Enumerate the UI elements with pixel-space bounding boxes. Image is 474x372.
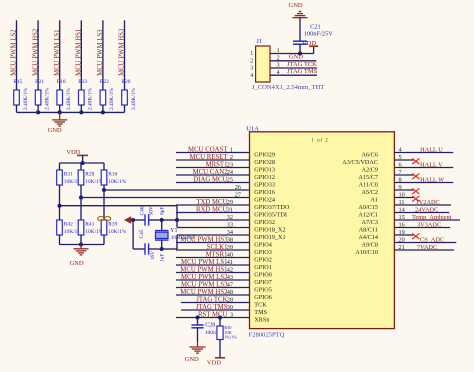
footprint J_CON4X1_2.54mm_THT — [252, 84, 324, 91]
pin 7 A15/C7 — [358, 169, 401, 181]
svg-text:A0/C15: A0/C15 — [358, 204, 378, 211]
net label MCU_PWM_LS2 — [11, 29, 18, 76]
svg-text:41: 41 — [227, 259, 233, 266]
svg-text:J1: J1 — [256, 38, 262, 45]
pin 9 A5/C2 — [361, 184, 401, 196]
pin 20 A9/C8 — [361, 237, 404, 249]
svg-text:16: 16 — [399, 222, 405, 229]
svg-text:TCK: TCK — [254, 302, 267, 309]
wire U1A pin 34 — [177, 234, 250, 236]
svg-text:11: 11 — [399, 199, 405, 206]
wire R31 rail to GPIO18_X2 — [60, 206, 178, 228]
wire U1A pin 29 — [176, 204, 250, 206]
wire U1A pin 26 — [104, 189, 250, 191]
resistor R16 10K/1% — [101, 163, 127, 185]
svg-text:3: 3 — [230, 312, 233, 319]
svg-text:GPIO24: GPIO24 — [254, 197, 275, 204]
svg-text:MCU PWM HS2: MCU PWM HS2 — [180, 289, 228, 296]
svg-text:A4/C14: A4/C14 — [358, 234, 378, 241]
svg-text:28: 28 — [227, 297, 233, 304]
svg-text:A15/C7: A15/C7 — [358, 174, 378, 181]
svg-text:MCU PWM HS1: MCU PWM HS1 — [180, 267, 227, 274]
junction — [102, 188, 106, 192]
svg-text:24VADC: 24VADC — [415, 207, 438, 214]
net label Temp_Ambient — [412, 214, 452, 221]
wire U1A pin 38 — [176, 242, 250, 244]
svg-text:GND: GND — [185, 356, 199, 363]
wire R28 column — [80, 185, 82, 220]
wire U1A pin 14 24VADC — [394, 212, 449, 214]
svg-text:MTSR1: MTSR1 — [206, 252, 228, 259]
pin 24 GPIO12 — [227, 169, 275, 181]
pin 30 TMS — [227, 304, 268, 316]
svg-text:J_CON4X1_2.54mm_THT: J_CON4X1_2.54mm_THT — [252, 84, 324, 91]
svg-text:38: 38 — [227, 237, 233, 244]
net label MCU_PWM_HS3 — [180, 237, 228, 244]
no-ERC cross — [412, 158, 419, 164]
svg-text:GPIO37/TDO: GPIO37/TDO — [254, 204, 290, 211]
pin 23 GPIO13 — [227, 162, 275, 174]
svg-text:24: 24 — [227, 169, 234, 176]
net label CS_ADC — [420, 237, 444, 244]
svg-text:XRSn: XRSn — [254, 317, 269, 324]
svg-text:JTAG TMS: JTAG TMS — [287, 68, 318, 75]
svg-text:HALL U: HALL U — [420, 147, 443, 154]
net label MCU_PWM_HS2 — [32, 28, 39, 76]
net label MTSR1 — [206, 252, 228, 259]
svg-text:5: 5 — [399, 154, 402, 161]
junction — [79, 196, 83, 200]
svg-text:10: 10 — [399, 192, 405, 199]
junction — [79, 243, 83, 247]
no-ERC cross — [412, 233, 419, 239]
svg-text:16V: 16V — [150, 251, 156, 260]
wire U1A pin 8 HALL_W — [394, 182, 453, 184]
svg-text:42: 42 — [227, 267, 233, 274]
svg-text:23: 23 — [227, 162, 233, 169]
wire U1A pin 20 CS_ADC — [394, 242, 456, 244]
pin 6 A2/C9 — [361, 162, 401, 174]
net label MCU_COAST — [188, 147, 228, 154]
pin 31 GPIO35/TDI — [227, 207, 287, 219]
capacitor C46 — [133, 206, 165, 226]
net label MCU_PWM_HS3 — [119, 28, 126, 76]
pin 14 A12/C1 — [358, 207, 405, 219]
svg-text:7VADC: 7VADC — [417, 244, 437, 251]
pin 1 number — [250, 48, 279, 57]
svg-text:GPIO1: GPIO1 — [254, 264, 272, 271]
pin 5 A3/C5/VDAC — [342, 154, 401, 166]
svg-text:A1: A1 — [370, 197, 378, 204]
wire J1 pin4 JTAG_TMS — [270, 74, 317, 76]
svg-text:4: 4 — [250, 73, 253, 79]
pin 2 number — [250, 56, 279, 65]
svg-text:MCU PWM LS2: MCU PWM LS2 — [181, 274, 228, 281]
wire U1A pin 11 1V2ADC — [394, 204, 451, 206]
svg-text:MCU PWM LS1: MCU PWM LS1 — [181, 259, 227, 266]
junction — [101, 110, 105, 114]
net label JTAG_TMS — [196, 304, 228, 311]
wire J1 pin3 JTAG_TCK — [270, 67, 317, 69]
wire gnd rail — [60, 244, 105, 246]
svg-text:GPIO4: GPIO4 — [254, 242, 272, 249]
wire R22 to bus — [102, 105, 104, 112]
wire U1A pin 6 HALL_V — [394, 167, 453, 169]
svg-text:GPIO16: GPIO16 — [254, 189, 275, 196]
svg-text:R39: R39 — [108, 222, 117, 228]
svg-text:2: 2 — [230, 154, 233, 161]
svg-text:GPIO6: GPIO6 — [254, 294, 272, 301]
svg-text:DIAG MCU: DIAG MCU — [193, 177, 227, 184]
svg-text:JTAG TCK: JTAG TCK — [196, 297, 227, 304]
resistor R22 2.49K/1% — [100, 79, 115, 110]
svg-text:HALL W: HALL W — [420, 177, 444, 184]
svg-text:GPIO0: GPIO0 — [254, 272, 272, 279]
svg-text:2.49K/1%: 2.49K/1% — [66, 87, 72, 110]
net label RST_MCU — [198, 312, 228, 319]
wire U1A pin 4 HALL_U — [394, 152, 453, 154]
junction — [58, 204, 62, 208]
wire U1A pin 42 — [176, 272, 250, 274]
wire U1A pin 1 — [176, 152, 250, 154]
ground GND reset — [185, 347, 206, 363]
svg-text:TXD MCU: TXD MCU — [196, 199, 227, 206]
net label JTAG_TCK — [196, 297, 227, 304]
no-ERC cross — [412, 188, 419, 194]
svg-text:2.49K/1%: 2.49K/1% — [88, 87, 94, 110]
svg-text:34: 34 — [227, 229, 234, 236]
net label JTAG_TMS — [287, 68, 318, 75]
wire U1A pin 3 — [176, 317, 250, 319]
wire R42 to gnd rail — [59, 235, 61, 245]
wire MCU_PWM_LS3 vertical — [102, 20, 104, 90]
svg-text:A10/C10: A10/C10 — [355, 249, 378, 256]
net label MCU_PWM_LS1 — [181, 259, 227, 266]
pin 38 GPIO4 — [227, 237, 272, 249]
wire U1A pin 15 Temp_Ambient — [394, 219, 460, 221]
svg-text:R20: R20 — [122, 79, 131, 85]
svg-text:7: 7 — [399, 169, 402, 176]
svg-text:GND: GND — [69, 260, 83, 267]
svg-text:8: 8 — [399, 177, 402, 184]
wire U1A pin 41 — [176, 264, 250, 266]
svg-text:10K/1%: 10K/1% — [108, 179, 126, 185]
svg-text:1: 1 — [230, 147, 233, 154]
op-amp U1A body — [246, 125, 394, 328]
junction — [81, 161, 85, 165]
wire ground bus — [17, 111, 125, 113]
svg-text:F280025PTQ: F280025PTQ — [249, 332, 285, 339]
pin 47 GPIO5 — [227, 282, 272, 294]
svg-text:RST MCU: RST MCU — [198, 312, 228, 319]
svg-text:GND: GND — [289, 54, 303, 61]
svg-text:GPIO3: GPIO3 — [254, 249, 272, 256]
svg-text:HALL V: HALL V — [420, 162, 443, 169]
svg-text:CS_ADC: CS_ADC — [420, 237, 444, 244]
svg-text:A12/C1: A12/C1 — [358, 212, 378, 219]
svg-text:R18: R18 — [57, 79, 66, 85]
junction — [36, 110, 40, 114]
pin 1 GPIO29 — [230, 147, 275, 159]
net label 24VADC — [415, 207, 438, 214]
marker blobs — [98, 217, 111, 221]
capacitor C45 — [133, 229, 165, 262]
net label MRST1 — [206, 162, 228, 169]
wire U1A pin 24 — [176, 174, 250, 176]
pin 11 A0/C15 — [358, 199, 404, 211]
wire C28 to ground — [197, 328, 199, 347]
svg-text:GND: GND — [289, 2, 303, 9]
wire U1A pin 43 — [176, 279, 250, 281]
junction — [175, 218, 179, 222]
svg-text:A6/C6: A6/C6 — [361, 152, 378, 159]
svg-text:R23: R23 — [78, 79, 87, 85]
resistor R42 10K/1% — [57, 220, 83, 235]
svg-text:1: 1 — [250, 51, 253, 57]
resistor R21 2.49K/1% — [35, 79, 50, 110]
pin 16 A8/C11 — [359, 222, 405, 234]
svg-text:14: 14 — [399, 207, 406, 214]
footprint F280025PTQ — [249, 332, 285, 339]
junction — [218, 316, 222, 320]
net label HALL_V — [420, 162, 443, 169]
pin 33 GPIO18_X2 — [227, 222, 286, 234]
svg-text:25: 25 — [227, 177, 233, 184]
junction — [79, 110, 83, 114]
svg-text:RXD MCU: RXD MCU — [196, 207, 228, 214]
svg-text:A3/C5/VDAC: A3/C5/VDAC — [342, 159, 378, 166]
wire U1A pin 7 stub — [394, 174, 413, 176]
svg-text:C21: C21 — [310, 24, 321, 31]
pin 28 TCK — [227, 297, 268, 309]
capacitor C21 100nF/25V — [293, 24, 333, 45]
wire U1A pin 48 — [176, 294, 250, 296]
wire R15 to bus — [16, 105, 18, 112]
svg-text:2.49K/1%: 2.49K/1% — [131, 87, 137, 110]
pin 25 GPIO33 — [227, 177, 275, 189]
svg-text:2.49K/1%: 2.49K/1% — [23, 87, 29, 110]
svg-text:A11/C0: A11/C0 — [359, 182, 378, 189]
resistor R23 2.49K/1% — [78, 79, 93, 110]
svg-text:R16: R16 — [108, 172, 117, 178]
net label SCLK1 — [207, 244, 228, 251]
svg-text:2: 2 — [250, 58, 253, 64]
svg-text:GPIO19_X1: GPIO19_X1 — [254, 234, 285, 241]
svg-text:9: 9 — [399, 184, 402, 191]
svg-text:1%/1%: 1%/1% — [224, 334, 237, 339]
wire R41 to gnd rail — [80, 235, 82, 245]
net label RXD_MCU — [196, 207, 228, 214]
pin 41 GPIO1 — [227, 259, 272, 271]
svg-text:C28: C28 — [205, 323, 215, 329]
svg-text:R21: R21 — [35, 79, 44, 85]
pin 32 GPIO32 — [227, 214, 275, 226]
pin 4 A6/C6 — [361, 147, 402, 159]
svg-text:21: 21 — [399, 244, 405, 251]
wire U1A pin 9 stub — [394, 189, 413, 191]
resistor R15 2.49K/1% — [14, 79, 29, 110]
net label HALL_W — [420, 177, 444, 184]
svg-text:1: 1 — [277, 48, 280, 54]
net label 1V2ADC — [416, 199, 440, 206]
svg-text:MCU CAN2: MCU CAN2 — [193, 169, 229, 176]
svg-text:A7/C3: A7/C3 — [361, 219, 378, 226]
junction — [58, 110, 62, 114]
power GND arrow — [125, 217, 133, 223]
svg-text:48: 48 — [227, 289, 233, 296]
pin 43 GPIO7 — [227, 274, 272, 286]
net label MCU_PWM_LS3 — [181, 282, 228, 289]
svg-text:10K/1%: 10K/1% — [108, 229, 126, 235]
no-ERC cross — [412, 173, 419, 179]
svg-text:GPIO5: GPIO5 — [254, 287, 272, 294]
wire crystal bottom to X1 — [162, 235, 177, 249]
resistor R18 2.49K/1% — [57, 79, 72, 110]
svg-text:R22: R22 — [100, 79, 109, 85]
net label 3V3ADC — [417, 222, 441, 229]
pin 10 A1 — [370, 192, 404, 204]
svg-text:40: 40 — [227, 252, 233, 259]
pin 40 GPIO2 — [227, 252, 272, 264]
resistor R41 10K/1% — [78, 220, 104, 235]
power VDD divider — [66, 149, 88, 163]
wire U1A pin 19 stub — [394, 234, 413, 236]
wire J1 pin1 net — [270, 53, 314, 55]
wire MCU_PWM_HS2 vertical — [37, 20, 39, 90]
pin 39 GPIO3 — [227, 244, 272, 256]
svg-text:100n: 100n — [205, 330, 216, 336]
wire R23 to bus — [80, 105, 82, 112]
svg-text:50V: 50V — [149, 206, 155, 215]
wire GND to C21 — [299, 18, 301, 42]
svg-text:GPIO29: GPIO29 — [254, 152, 275, 159]
net label MCU_PWM_HS1 — [180, 267, 227, 274]
svg-text:Temp_Ambient: Temp_Ambient — [412, 214, 452, 221]
junction — [160, 218, 164, 222]
svg-text:39: 39 — [227, 244, 233, 251]
svg-text:3V3ADC: 3V3ADC — [417, 222, 441, 229]
svg-text:26: 26 — [235, 184, 241, 191]
svg-text:29: 29 — [227, 199, 233, 206]
net label MCU_PWM_HS1 — [76, 29, 83, 76]
ground GND top — [289, 2, 308, 17]
svg-text:GPIO35/TDI: GPIO35/TDI — [254, 212, 287, 219]
svg-text:33: 33 — [227, 222, 233, 229]
resistor R31 10K/1% — [57, 163, 83, 185]
no-ERC cross — [412, 196, 419, 202]
wire U1A pin 27 — [81, 197, 250, 199]
svg-text:8pF: 8pF — [159, 207, 165, 215]
svg-text:VDD: VDD — [302, 40, 316, 47]
svg-text:Y1: Y1 — [170, 228, 177, 234]
svg-text:2.49K/1%: 2.49K/1% — [44, 87, 50, 110]
resistor R28 10K/1% — [78, 163, 104, 185]
svg-text:47: 47 — [227, 282, 233, 289]
wire J1 pin2 GND — [270, 60, 316, 62]
pin 21 A10/C10 — [355, 244, 405, 256]
net label MCU_PWM_LS1 — [54, 29, 61, 75]
wire R30 to VDD — [219, 340, 221, 358]
svg-text:MCU COAST: MCU COAST — [188, 147, 228, 154]
svg-text:MCU PWM LS3: MCU PWM LS3 — [181, 282, 228, 289]
wire MCU_PWM_LS2 vertical — [16, 20, 18, 90]
svg-text:GPIO28: GPIO28 — [254, 159, 275, 166]
svg-text:MCU PWM HS3: MCU PWM HS3 — [180, 237, 228, 244]
power VDD — [302, 40, 318, 54]
wire U1A pin 21 7VADC — [394, 249, 454, 251]
svg-text:R42: R42 — [64, 222, 73, 228]
wire crystal top to X2 — [162, 219, 177, 221]
svg-text:GPIO12: GPIO12 — [254, 174, 275, 181]
svg-text:GPIO33: GPIO33 — [254, 182, 275, 189]
wire U1A pin 28 — [181, 302, 250, 304]
wire R16 column — [103, 185, 105, 220]
svg-text:JTAG TCK: JTAG TCK — [287, 61, 317, 68]
svg-text:GND: GND — [48, 127, 62, 134]
wire U1A pin 25 — [176, 182, 250, 184]
pin 34 GPIO19_X1 — [227, 229, 286, 241]
svg-text:6: 6 — [399, 162, 402, 169]
svg-text:100nF/25V: 100nF/25V — [304, 31, 334, 38]
junction — [196, 316, 200, 320]
wire MCU_PWM_LS1 vertical — [59, 20, 61, 90]
wire VDD rail — [60, 162, 105, 164]
svg-text:GPIO2: GPIO2 — [254, 257, 272, 264]
wire U1A pin 31 — [176, 212, 250, 214]
svg-text:GPIO18_X2: GPIO18_X2 — [254, 227, 285, 234]
svg-text:20: 20 — [399, 237, 405, 244]
svg-text:A9/C8: A9/C8 — [361, 242, 378, 249]
svg-text:C45: C45 — [139, 229, 145, 238]
wire MCU_PWM_HS3 vertical — [124, 20, 126, 90]
capacitor C28 100n — [191, 318, 216, 336]
svg-text:R28: R28 — [85, 172, 94, 178]
svg-text:GPIO32: GPIO32 — [254, 219, 275, 226]
pin 3 number — [250, 63, 279, 72]
wire U1A pin 2 — [176, 159, 250, 161]
svg-text:A2/C9: A2/C9 — [361, 167, 378, 174]
wire U1A pin 10 stub — [394, 197, 413, 199]
ground GND — [48, 110, 68, 134]
svg-text:R31: R31 — [64, 172, 73, 178]
connector J1 — [256, 38, 270, 82]
net label MCU_RESET — [190, 154, 229, 161]
svg-text:19: 19 — [399, 229, 405, 236]
svg-text:A8/C11: A8/C11 — [359, 227, 378, 234]
svg-text:MCU RESET: MCU RESET — [190, 154, 229, 161]
wire U1A pin 33 — [177, 227, 250, 229]
net label MCU_CAN2 — [193, 169, 229, 176]
pin 8 A11/C0 — [359, 177, 402, 189]
svg-text:VDD: VDD — [207, 359, 221, 366]
wire U1A pin 16 3V3ADC — [394, 227, 450, 229]
junction — [160, 247, 164, 251]
wire U1A pin 40 — [176, 257, 250, 259]
pin 42 GPIO0 — [227, 267, 272, 279]
crystal Y1 10MHz — [155, 220, 196, 249]
net label HALL_U — [420, 147, 443, 154]
svg-text:MRST1: MRST1 — [206, 162, 228, 169]
wire R20 to bus — [124, 105, 126, 112]
resistor R20 2.49K/1% — [122, 79, 137, 110]
svg-text:GPIO7: GPIO7 — [254, 279, 272, 286]
pin 4 number — [250, 70, 279, 79]
svg-text:1V2ADC: 1V2ADC — [416, 199, 440, 206]
pin 19 A4/C14 — [358, 229, 404, 241]
wire U1A pin 39 — [176, 249, 250, 251]
wire U1A pin 30 — [181, 309, 250, 311]
svg-text:30: 30 — [227, 304, 233, 311]
